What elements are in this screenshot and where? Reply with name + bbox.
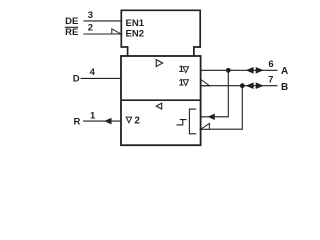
bidirectional arrows on wire B <box>246 82 254 89</box>
driver/receiver block outline <box>121 56 201 145</box>
receiver buffer symbol <box>156 103 161 109</box>
svg-text:1: 1 <box>90 111 96 122</box>
active-low wedge on receiver input B <box>201 123 210 129</box>
svg-text:EN2: EN2 <box>126 29 144 40</box>
wire RE <box>83 33 112 35</box>
svg-text:EN1: EN1 <box>126 18 145 29</box>
svg-text:RE: RE <box>65 27 78 38</box>
svg-text:7: 7 <box>268 75 273 86</box>
svg-text:3: 3 <box>88 10 93 21</box>
svg-text:6: 6 <box>268 59 273 70</box>
active-low wedge on RE input <box>112 29 121 34</box>
svg-text:2: 2 <box>134 115 140 126</box>
driver buffer symbol <box>156 60 162 67</box>
control block EN outline <box>121 10 200 56</box>
svg-text:2: 2 <box>88 22 93 33</box>
svg-text:R: R <box>74 116 81 127</box>
wire D <box>81 77 121 79</box>
wire A (driver output to pin 6) <box>201 69 278 71</box>
svg-text:4: 4 <box>90 67 96 78</box>
branch wire A to receiver input <box>201 70 228 117</box>
svg-text:A: A <box>281 66 288 77</box>
active-low wedge on driver output B <box>201 80 210 86</box>
svg-text:D: D <box>73 74 80 85</box>
svg-text:1: 1 <box>179 64 184 74</box>
branch wire B to receiver input <box>201 86 243 130</box>
driver/receiver divider <box>121 99 201 101</box>
bracket on receiver inputs <box>189 109 196 134</box>
arrowhead into receiver input A <box>208 114 215 120</box>
svg-text:B: B <box>281 82 288 93</box>
wire DE <box>83 20 121 22</box>
junction dot on wire A <box>226 68 231 73</box>
junction dot on wire B <box>240 83 245 88</box>
tri-state label receiver <box>126 117 131 123</box>
svg-text:DE: DE <box>65 16 78 27</box>
wire B (driver output to pin 7) <box>201 85 278 87</box>
bidirectional arrows on wire A <box>246 67 254 74</box>
wire R <box>83 120 121 122</box>
arrowhead on R output (points left) <box>104 118 111 125</box>
hysteresis symbol <box>177 120 187 125</box>
svg-text:1: 1 <box>179 77 184 87</box>
